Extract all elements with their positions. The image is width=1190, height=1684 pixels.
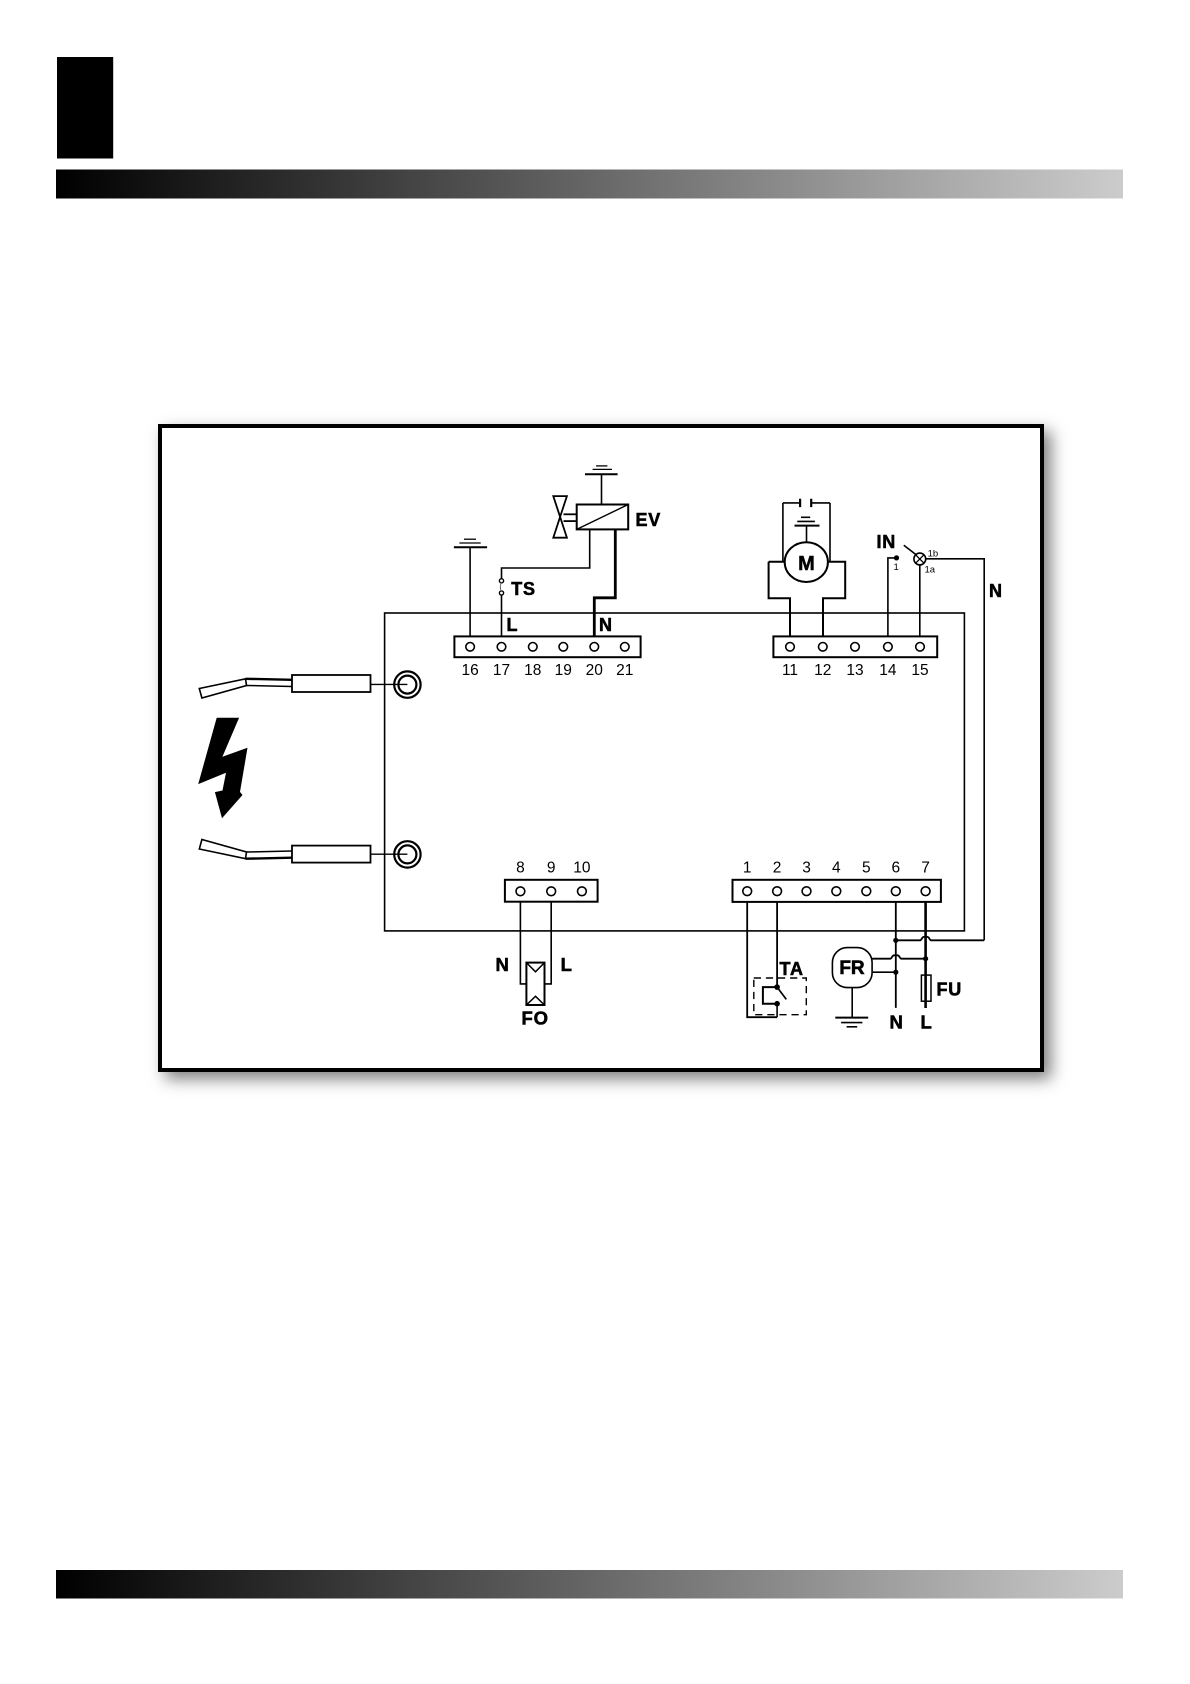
wire: N bus with hop over L	[896, 937, 984, 940]
svg-text:N: N	[599, 615, 613, 635]
EV valve actuator fan	[553, 496, 576, 538]
terminal strip 16-21	[454, 636, 640, 657]
wire: TS to terminal 17	[501, 595, 503, 647]
wire: EV earth lead	[601, 474, 603, 504]
board connector ring (bottom)	[394, 841, 420, 867]
flame relay FR	[832, 948, 872, 988]
svg-text:M: M	[798, 553, 815, 575]
wire: FR upper to L with hop over N	[872, 955, 926, 958]
svg-text:16: 16	[461, 662, 478, 679]
wire: terminal 2 to TA	[776, 891, 778, 987]
wire: capacitor legs	[783, 503, 830, 562]
svg-text:21: 21	[616, 662, 633, 679]
svg-text:12: 12	[814, 662, 831, 679]
svg-text:L: L	[507, 615, 519, 635]
terminals 16-21	[466, 643, 629, 652]
diagram outer frame	[160, 426, 1042, 1070]
svg-text:TS: TS	[511, 579, 536, 599]
wire: lamp to terminal 15	[919, 565, 921, 647]
wire: EV L lead down to TS junction	[502, 529, 590, 578]
svg-text:EV: EV	[636, 510, 662, 530]
high voltage bolt symbol	[198, 718, 247, 819]
ground (earth) above terminal 16	[454, 539, 487, 547]
svg-text:N: N	[890, 1012, 904, 1033]
ground (earth) below FR	[835, 1018, 868, 1027]
svg-text:2: 2	[773, 860, 782, 877]
safety thermostat TS contacts	[499, 579, 503, 595]
control board outline	[385, 613, 965, 931]
svg-text:L: L	[921, 1012, 933, 1033]
labels 11-15	[782, 662, 929, 679]
wire: terminal 7 L drop	[924, 891, 927, 1008]
svg-text:8: 8	[516, 860, 525, 877]
svg-text:20: 20	[586, 662, 604, 679]
svg-text:L: L	[561, 954, 573, 975]
footer gradient bar	[56, 1570, 1123, 1599]
gas valve EV body	[577, 505, 629, 530]
terminal strip 1-7	[733, 880, 941, 902]
svg-text:13: 13	[846, 662, 863, 679]
svg-text:FR: FR	[839, 958, 865, 979]
svg-text:N: N	[496, 954, 510, 975]
terminal strip 8-10	[505, 880, 598, 902]
svg-text:FO: FO	[522, 1008, 549, 1029]
labels 8-10	[516, 860, 591, 877]
room thermostat TA contact	[763, 984, 786, 1017]
svg-text:TA: TA	[780, 959, 804, 979]
motor capacitor	[783, 499, 830, 507]
motor mount bracket	[769, 562, 846, 647]
svg-text:5: 5	[862, 860, 871, 877]
switch IN contact 1 (dot)	[888, 555, 899, 646]
switch IN lamp contact	[914, 553, 926, 565]
terminals 8-10	[516, 887, 586, 896]
svg-text:FU: FU	[937, 980, 963, 1000]
switch IN lever	[904, 545, 916, 554]
svg-text:10: 10	[573, 860, 591, 877]
TS contact blade	[499, 583, 502, 592]
labels 1-7	[743, 860, 930, 877]
wire: terminal 1 to TA	[747, 891, 777, 1017]
svg-text:N: N	[989, 581, 1003, 601]
terminals 11-15	[786, 643, 925, 652]
svg-text:3: 3	[802, 860, 811, 877]
terminals 1-7	[743, 887, 930, 896]
svg-text:7: 7	[921, 860, 930, 877]
svg-text:18: 18	[524, 662, 541, 679]
junction: N bus / terminal 6	[893, 938, 898, 943]
svg-text:11: 11	[782, 662, 798, 679]
fan motor M	[785, 542, 828, 582]
wire: terminal 8 to FO	[520, 891, 526, 984]
wire: FR lower to N	[872, 971, 896, 973]
junction: FR upper / terminal 7	[923, 956, 928, 961]
wire: earth to terminal 16	[469, 547, 471, 647]
fuse FU	[921, 975, 931, 1001]
room thermostat TA dashed box	[754, 978, 807, 1015]
svg-text:1b: 1b	[928, 549, 939, 560]
svg-text:1: 1	[743, 860, 752, 877]
ground (earth) on motor	[795, 517, 820, 543]
wire: EV N lead (thick) to terminal 20	[594, 529, 615, 646]
svg-text:6: 6	[891, 860, 900, 877]
svg-text:19: 19	[555, 662, 572, 679]
svg-text:14: 14	[879, 662, 897, 679]
svg-text:IN: IN	[877, 532, 897, 552]
svg-text:9: 9	[547, 860, 556, 877]
terminal strip 11-15	[773, 636, 937, 657]
labels 16-21	[461, 662, 633, 679]
wire: N line from switch down right side	[926, 559, 985, 941]
detection electrode (bottom)	[199, 840, 407, 863]
junction: FR lower / terminal 6	[893, 970, 898, 975]
ground (earth) above EV valve	[585, 466, 618, 474]
svg-text:4: 4	[832, 860, 841, 877]
svg-text:1a: 1a	[925, 565, 936, 576]
wire: FR earth lead	[851, 988, 853, 1018]
photocell FO	[526, 963, 544, 1005]
svg-text:17: 17	[493, 662, 510, 679]
svg-text:15: 15	[911, 662, 928, 679]
svg-text:1: 1	[894, 562, 899, 573]
header gradient bar	[56, 170, 1123, 199]
wire: terminal 6 N drop	[895, 891, 897, 1008]
wire: terminal 9 to FO	[545, 891, 552, 984]
ignition electrode (top)	[199, 675, 407, 698]
header black block	[57, 57, 113, 159]
board connector ring (top)	[394, 671, 420, 697]
